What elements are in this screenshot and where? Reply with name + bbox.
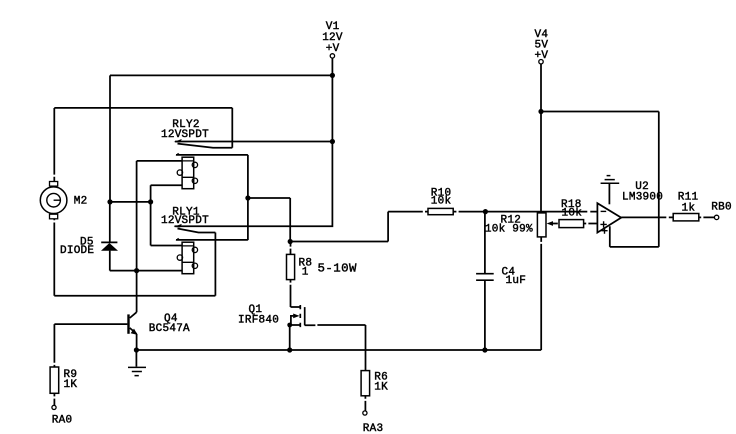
relay RLY1 coil	[177, 242, 197, 274]
svg-text:RA3: RA3	[363, 423, 384, 434]
svg-text:BC547A: BC547A	[149, 323, 190, 335]
op-amp U2 LM3900	[597, 181, 663, 234]
node junction RLY2 throw	[330, 139, 335, 144]
ground below Q4	[128, 350, 146, 376]
wire left vertical x=110	[109, 75, 111, 201]
wire motor bottom to RLY1 blade	[53, 223, 55, 296]
wire jog to R8 node	[248, 198, 290, 242]
node junction D5 top	[107, 199, 112, 204]
svg-text:1k: 1k	[682, 203, 696, 215]
wire RLY2 coil pin2 / RLY1 coil pin1 riser	[151, 185, 183, 245]
relay RLY1 NO throw arrow	[176, 238, 248, 240]
wire D5 anode to RLY1 coil pin2	[110, 270, 182, 272]
svg-text:12VSPDT: 12VSPDT	[161, 215, 209, 227]
wire V1 vertical rail down to RLY1 throw	[175, 58, 333, 226]
node R8/R10 junction	[288, 239, 293, 244]
transistor Q1 IRF840	[238, 304, 366, 350]
node junction C4 top	[483, 209, 488, 214]
wire RLY2 coil pin1 riser to Q4 collector	[136, 161, 138, 312]
relay RLY2 NO throw arrow	[176, 153, 248, 155]
resistor R8	[287, 242, 358, 308]
svg-text:IRF840: IRF840	[238, 314, 279, 326]
relay RLY1 throw contact arrow	[174, 224, 182, 228]
wire op-amp output	[621, 216, 673, 218]
resistor R18	[559, 199, 597, 228]
wire V4 vertical down to R12 top	[540, 64, 542, 213]
node junction C4 bottom on rail	[482, 347, 487, 352]
svg-text:12V: 12V	[322, 32, 343, 44]
relay RLY2 throw contact arrow	[174, 139, 333, 143]
node RB0 terminal	[711, 202, 732, 220]
node junction V1 top	[330, 73, 335, 78]
resistor R9	[50, 324, 77, 405]
resistor R11	[673, 191, 714, 221]
svg-text:+V: +V	[326, 43, 340, 55]
node RA0 terminal	[52, 405, 73, 426]
relay RLY2 coil	[137, 157, 198, 189]
node junction x=248	[245, 195, 250, 200]
svg-text:1: 1	[302, 267, 309, 279]
motor M2	[40, 108, 87, 220]
wire top horizontal y=75	[110, 74, 332, 76]
wire Q1 gate riser to R6	[365, 325, 367, 371]
wire to op-amp minus input	[485, 211, 596, 213]
node V4 supply terminal	[535, 29, 549, 64]
svg-text:10k 99%: 10k 99%	[485, 224, 533, 236]
node V1 supply terminal	[322, 21, 343, 58]
svg-text:M2: M2	[74, 196, 88, 208]
svg-text:1K: 1K	[374, 382, 388, 394]
diode D5	[60, 202, 118, 271]
svg-text:LM3900: LM3900	[622, 191, 663, 203]
wire ground rail	[136, 349, 541, 351]
wire coil node y=202	[110, 201, 151, 203]
transistor Q4 BC547A	[54, 312, 190, 350]
svg-text:1uF: 1uF	[506, 275, 527, 287]
relay RLY1 blade common	[54, 229, 215, 296]
node junction Q1 source on rail	[287, 347, 292, 352]
resistor R10	[428, 187, 485, 214]
svg-text:10k: 10k	[562, 207, 583, 219]
svg-text:1K: 1K	[64, 379, 78, 391]
relay RLY2 label	[161, 119, 209, 141]
svg-text:DIODE: DIODE	[60, 245, 94, 257]
node junction Q4 emitter / ground rail	[134, 347, 139, 352]
node junction coil pins	[148, 199, 153, 204]
node junction D5 line	[134, 268, 139, 273]
node RA3 terminal	[363, 411, 384, 434]
wire sense node to R10	[290, 212, 428, 242]
resistor R6	[361, 371, 388, 411]
wire NO node vertical x=248	[247, 155, 249, 240]
svg-text:10k: 10k	[431, 196, 452, 208]
svg-text:12VSPDT: 12VSPDT	[161, 129, 209, 141]
svg-text:RB0: RB0	[711, 202, 732, 214]
wire op-amp supply loop	[541, 112, 659, 247]
svg-text:5-10W: 5-10W	[318, 261, 358, 275]
svg-text:R11: R11	[678, 191, 699, 203]
svg-text:+V: +V	[535, 50, 549, 62]
ground at op-amp plus input	[601, 176, 620, 205]
svg-text:RA0: RA0	[52, 414, 73, 426]
relay RLY2 blade common	[54, 108, 232, 148]
relay RLY1 label	[161, 207, 209, 227]
node junction V4 / opamp supply	[538, 109, 543, 114]
potentiometer R12	[485, 213, 558, 350]
capacitor C4	[476, 212, 526, 350]
